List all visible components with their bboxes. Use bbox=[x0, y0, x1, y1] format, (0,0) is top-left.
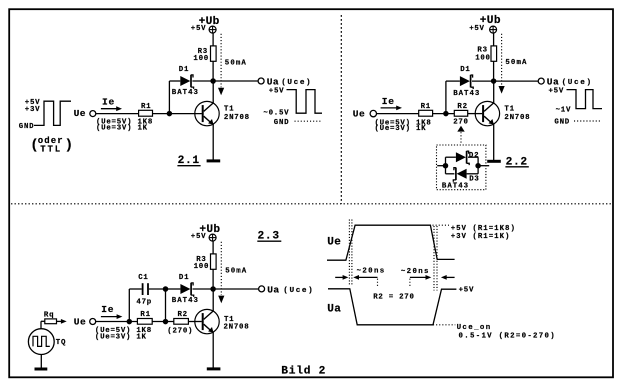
input waveform (TTL levels) bbox=[34, 101, 71, 125]
resistor R2 2.3 bbox=[174, 319, 189, 325]
wire R1 to R2 2.3 bbox=[152, 321, 174, 323]
capacitor branch: left vertical bbox=[128, 289, 130, 322]
ground 2.2 bbox=[487, 160, 501, 163]
wire collector node to R3 2.2 bbox=[493, 61, 495, 81]
svg-text:BAT43: BAT43 bbox=[172, 297, 199, 305]
svg-text:+Ub: +Ub bbox=[480, 15, 501, 27]
wire +Ub to R3 2.3 bbox=[212, 241, 214, 254]
svg-text:Ie: Ie bbox=[101, 304, 114, 315]
svg-text:(Uce): (Uce) bbox=[281, 79, 312, 87]
wire diode to collector node 2.1 bbox=[192, 80, 213, 82]
node C1 right 2.3 bbox=[163, 286, 169, 292]
svg-text:Ue: Ue bbox=[353, 109, 365, 120]
wire junction up to diode 2.2 bbox=[445, 81, 447, 114]
svg-text:TQ: TQ bbox=[56, 339, 66, 347]
wire to C1 left plate bbox=[129, 288, 141, 290]
svg-text:(Uce): (Uce) bbox=[283, 287, 314, 295]
svg-text:100: 100 bbox=[193, 55, 209, 63]
svg-text:+3V: +3V bbox=[25, 106, 41, 114]
dotted leader Uce_on bbox=[433, 324, 455, 326]
node base junction 2.2 bbox=[443, 111, 449, 117]
svg-text:D1: D1 bbox=[179, 274, 189, 282]
measure arrows right ~20ns bbox=[410, 276, 427, 278]
wire collector vertical 2.3 bbox=[212, 289, 214, 311]
svg-text:2N708: 2N708 bbox=[224, 324, 250, 332]
svg-text:47p: 47p bbox=[136, 299, 152, 307]
svg-text:+Ub: +Ub bbox=[199, 224, 220, 236]
svg-text:T1: T1 bbox=[224, 316, 234, 324]
transistor T1 2.3 bbox=[195, 309, 219, 333]
svg-text:TTL: TTL bbox=[40, 144, 62, 154]
waveform Ue timing bbox=[327, 225, 455, 260]
resistor R3 2.3 bbox=[211, 254, 217, 269]
wire collector node to Ua 2.1 bbox=[213, 80, 258, 82]
svg-text:270: 270 bbox=[453, 119, 469, 127]
wire left branch D2 D3 bbox=[445, 157, 447, 174]
svg-text:Bild 2: Bild 2 bbox=[281, 366, 326, 378]
node collector junction 2.1 bbox=[210, 78, 216, 84]
svg-text:(Ue=3V) 1K: (Ue=3V) 1K bbox=[96, 124, 148, 132]
svg-text:D1: D1 bbox=[460, 66, 470, 74]
current path 50mA dotted 2.3 bbox=[220, 242, 222, 295]
svg-text:GND: GND bbox=[19, 123, 35, 131]
svg-text:R1: R1 bbox=[141, 103, 151, 111]
node R1-R2 2.3 bbox=[163, 319, 169, 325]
wire stub left of box bbox=[437, 165, 443, 167]
svg-text:100: 100 bbox=[475, 54, 491, 62]
svg-text:2N708: 2N708 bbox=[224, 114, 250, 122]
svg-text:BAT43: BAT43 bbox=[172, 89, 199, 97]
node left D2 D3 bbox=[443, 163, 449, 169]
wire R2 to base 2.3 bbox=[188, 321, 201, 323]
node right D2 D3 bbox=[475, 163, 481, 169]
wire R2 to base 2.2 bbox=[468, 113, 483, 115]
svg-text:(Ue=3V) 1K: (Ue=3V) 1K bbox=[95, 334, 147, 342]
svg-text:D3: D3 bbox=[469, 175, 479, 183]
wire D3 to left node bbox=[446, 173, 455, 175]
wire emitter to ground 2.1 bbox=[212, 124, 214, 159]
power terminal +Ub 2.1 bbox=[209, 26, 216, 33]
divider between 2.1 and 2.2 bbox=[340, 15, 342, 204]
svg-text:Uce_on: Uce_on bbox=[457, 324, 492, 332]
measure arrows left ~20ns bbox=[335, 276, 344, 278]
dotted leader +5V level bbox=[433, 224, 450, 226]
svg-text:Ue: Ue bbox=[327, 237, 341, 249]
diode D1 2.2 bbox=[460, 76, 470, 86]
svg-text:T1: T1 bbox=[504, 105, 514, 113]
svg-text:Ie: Ie bbox=[382, 96, 395, 107]
diode D2 bbox=[456, 152, 466, 162]
dotted slope markers left bbox=[348, 220, 350, 286]
svg-text:D2: D2 bbox=[469, 152, 479, 160]
current arrow Ie 2.1 bbox=[101, 108, 118, 110]
svg-text:Rq: Rq bbox=[44, 311, 54, 319]
terminal Ua 2.1 bbox=[258, 78, 264, 84]
dotted drop right bbox=[409, 279, 411, 288]
terminal Ua 2.3 bbox=[259, 286, 265, 292]
svg-text:Ie: Ie bbox=[102, 96, 115, 107]
node collector junction 2.3 bbox=[210, 286, 216, 292]
resistor R3 2.1 bbox=[211, 46, 217, 61]
dotted arrow to R2 2.2 bbox=[457, 126, 464, 132]
wire emitter to ground 2.2 bbox=[493, 124, 495, 160]
node R1 left 2.3 bbox=[127, 319, 133, 325]
svg-text:50mA: 50mA bbox=[225, 60, 247, 68]
svg-text:50mA: 50mA bbox=[225, 268, 247, 276]
resistor R1 2.1 bbox=[139, 110, 153, 116]
svg-text:R2 = 270: R2 = 270 bbox=[373, 294, 414, 302]
resistor R2 2.2 bbox=[454, 110, 467, 116]
ground 2.1 bbox=[207, 159, 221, 162]
svg-text:Ua: Ua bbox=[267, 76, 279, 87]
power terminal +Ub 2.2 bbox=[490, 26, 497, 33]
svg-text:R1: R1 bbox=[140, 311, 150, 319]
svg-text:GND: GND bbox=[274, 119, 290, 127]
terminal Ue 2.1 bbox=[90, 111, 96, 117]
wire Ue to R1 2.2 bbox=[377, 113, 419, 115]
wire collector vertical 2.1 bbox=[212, 81, 214, 103]
svg-text:): ) bbox=[65, 138, 73, 154]
current arrow Ie 2.2 bbox=[381, 107, 398, 109]
wire TQ to ground bbox=[40, 355, 42, 368]
wire junction up to diode 2.1 bbox=[168, 81, 170, 114]
current arrow Ie 2.3 bbox=[101, 316, 118, 318]
resistor R3 2.2 bbox=[491, 46, 497, 61]
wire collector node to R3 2.1 bbox=[212, 61, 214, 81]
resistor R1 2.3 bbox=[137, 319, 152, 325]
wire diode to collector node 2.3 bbox=[193, 288, 214, 290]
svg-text:+5V: +5V bbox=[459, 286, 475, 294]
wire R1 to R2 2.2 bbox=[433, 113, 455, 115]
wire collector vertical 2.2 bbox=[493, 81, 495, 103]
node collector junction 2.2 bbox=[491, 78, 497, 84]
svg-text:+5V (R1=1K8): +5V (R1=1K8) bbox=[451, 225, 516, 233]
wire collector node to Ua 2.2 bbox=[494, 80, 539, 82]
node base junction 2.1 bbox=[167, 111, 173, 117]
svg-text:+5V: +5V bbox=[269, 87, 285, 95]
dotted box D2 D3 bbox=[437, 145, 486, 190]
terminal Ue 2.2 bbox=[370, 110, 376, 116]
svg-text:Ua: Ua bbox=[547, 76, 559, 87]
wire C1 right plate to node bbox=[149, 288, 166, 290]
wire emitter to ground 2.3 bbox=[212, 332, 214, 367]
waveform Ua timing bbox=[328, 289, 456, 325]
wire diode to collector node 2.2 bbox=[472, 80, 494, 82]
diode D1 2.1 bbox=[180, 76, 190, 86]
divider above 2.3 bbox=[11, 203, 612, 205]
generator TQ bbox=[28, 329, 54, 355]
svg-text:C1: C1 bbox=[138, 274, 148, 282]
svg-text:100: 100 bbox=[194, 263, 210, 271]
svg-text:~1V: ~1V bbox=[556, 106, 572, 114]
wire collector node to Ua 2.3 bbox=[213, 288, 259, 290]
ground 2.3 bbox=[207, 367, 221, 370]
svg-text:+5V: +5V bbox=[549, 87, 565, 95]
transistor T1 2.2 bbox=[475, 101, 499, 125]
svg-text:BAT43: BAT43 bbox=[453, 90, 480, 98]
svg-text:BAT43: BAT43 bbox=[442, 183, 469, 191]
svg-text:~20ns: ~20ns bbox=[401, 268, 430, 276]
current path 50mA dotted 2.1 bbox=[220, 34, 222, 87]
dotted slope markers right bbox=[433, 226, 435, 291]
svg-text:T1: T1 bbox=[224, 105, 234, 113]
svg-text:~20ns: ~20ns bbox=[357, 267, 386, 275]
svg-text:D1: D1 bbox=[179, 66, 189, 74]
wire C1 node down to R1-R2 node bbox=[165, 289, 167, 322]
svg-text:GND: GND bbox=[554, 119, 570, 127]
wire to D3 bbox=[467, 173, 479, 175]
terminal Ua 2.2 bbox=[538, 78, 544, 84]
svg-text:R2: R2 bbox=[457, 103, 467, 111]
output waveform 2.2 bbox=[567, 90, 603, 109]
dotted drop left bbox=[377, 279, 379, 288]
arrow Rq to Ue bbox=[57, 320, 63, 322]
svg-text:Ua: Ua bbox=[267, 284, 279, 295]
svg-text:+Ub: +Ub bbox=[199, 16, 220, 28]
wire Ue to R1 2.1 bbox=[96, 113, 139, 115]
svg-text:(Uce): (Uce) bbox=[562, 79, 593, 87]
svg-text:Ua: Ua bbox=[327, 303, 341, 315]
wire C1 node to diode 2.3 bbox=[166, 288, 181, 290]
diode D1 2.3 bbox=[180, 284, 190, 294]
capacitor C1 bbox=[142, 283, 144, 295]
svg-text:~0.5V: ~0.5V bbox=[263, 109, 289, 117]
wire Ue to R1 2.3 bbox=[96, 321, 138, 323]
current path 50mA dotted 2.2 bbox=[501, 34, 503, 86]
svg-text:50mA: 50mA bbox=[505, 59, 527, 67]
wire to D2 bbox=[446, 156, 456, 158]
wire right branch D2 D3 bbox=[477, 157, 479, 174]
svg-text:Ue: Ue bbox=[74, 317, 86, 328]
svg-text:(Ue=3V) 1K: (Ue=3V) 1K bbox=[375, 125, 427, 133]
wire TQ to Rq bbox=[40, 321, 42, 329]
svg-text:(270): (270) bbox=[167, 327, 193, 335]
source resistor Rq bbox=[45, 319, 57, 324]
terminal Ue 2.3 bbox=[90, 319, 96, 325]
wire stub right of box bbox=[481, 165, 490, 167]
svg-text:R1: R1 bbox=[421, 103, 431, 111]
svg-text:2N708: 2N708 bbox=[504, 114, 530, 122]
transistor T1 2.1 bbox=[195, 101, 219, 125]
ground TQ bbox=[35, 368, 48, 371]
diode D3 bbox=[457, 169, 467, 179]
wire R3 to collector node 2.3 bbox=[212, 269, 214, 289]
svg-text:0.5-1V (R2=0-270): 0.5-1V (R2=0-270) bbox=[459, 332, 557, 340]
power terminal +Ub 2.3 bbox=[209, 234, 216, 241]
output waveform 2.1 bbox=[287, 90, 323, 114]
wire R3 to +Ub 2.1 bbox=[212, 33, 214, 46]
svg-text:R2: R2 bbox=[178, 311, 188, 319]
resistor R1 2.2 bbox=[419, 110, 433, 116]
wire R3 to +Ub 2.2 bbox=[493, 33, 495, 46]
svg-text:Ue: Ue bbox=[74, 108, 86, 119]
wire D2 to right node bbox=[468, 156, 478, 158]
svg-text:+3V (R1=1K): +3V (R1=1K) bbox=[451, 233, 511, 241]
wire R1 to base 2.1 bbox=[153, 113, 202, 115]
